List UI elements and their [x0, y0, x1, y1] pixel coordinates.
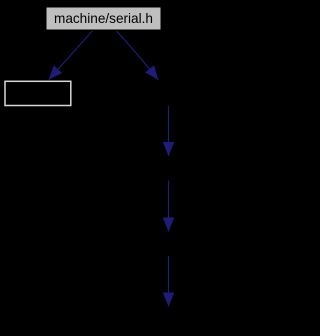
edge chain node1 -> node2 — [168, 106, 170, 156]
node left (unlabeled box) — [5, 81, 71, 105]
node machine/serial.h — [46, 7, 161, 30]
edge chain node2 -> node3 — [168, 181, 170, 232]
edge chain node3 -> node4 — [168, 256, 170, 307]
edge serial.h -> left box — [49, 31, 93, 80]
svg-text:machine/serial.h: machine/serial.h — [54, 11, 153, 26]
edge serial.h -> right chain node 1 — [117, 31, 159, 80]
